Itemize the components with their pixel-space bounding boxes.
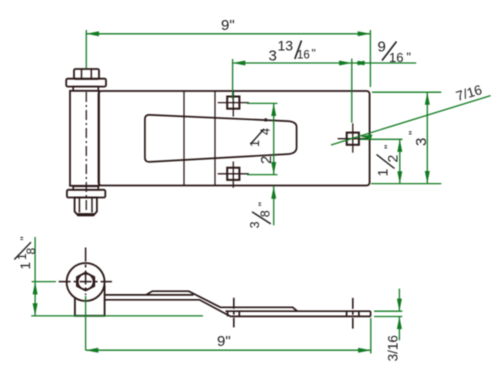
dim 9 inch top: extension lines (85, 30, 87, 69)
svg-text:2: 2 (258, 156, 275, 164)
dim 9/16: arrows (354, 61, 365, 66)
pin centerline (85, 92, 87, 215)
dim 1 1/8: text (rotated) (14, 236, 38, 269)
hole C centerline side view (352, 298, 354, 329)
svg-text:9: 9 (378, 39, 386, 56)
dim 1 1/8: line (34, 237, 36, 316)
knuckle circle (67, 263, 105, 301)
dim 3 inch: arrows (425, 92, 430, 105)
green base surface extension (31, 315, 203, 317)
dim 9 inch bottom: extension line right (370, 318, 372, 354)
dim 9 inch bottom: arrows (86, 348, 99, 353)
dim 3/8: text (rotated) (248, 202, 273, 228)
svg-text:1: 1 (248, 140, 262, 147)
dim 9 inch top: line (86, 33, 370, 35)
hole C edges in side view (346, 311, 348, 316)
leader 7/16: text (rotated) (454, 82, 483, 104)
svg-text:16: 16 (389, 50, 403, 65)
bend line right (214, 91, 216, 186)
svg-text:": " (262, 118, 276, 122)
svg-text:": " (312, 47, 316, 61)
svg-text:": " (20, 236, 32, 240)
svg-text:4: 4 (259, 128, 273, 135)
dim 9/16: text (378, 39, 411, 66)
hole B (lower) (218, 162, 249, 188)
dim 3 13/16: text (269, 38, 316, 65)
bend line left (183, 91, 185, 186)
dim 3 13/16: extension lines (232, 59, 234, 99)
dim 9 inch top: arrows (86, 31, 99, 36)
top nut (74, 69, 99, 79)
dim 9 inch bottom: line (86, 349, 371, 351)
leader 7/16: line (331, 96, 491, 145)
dim 1 1/8: arrows (33, 282, 38, 295)
dim 2 1/4: line (273, 103, 275, 174)
dim 3/8: line below (273, 186, 275, 225)
dim 3 inch: extension lines (372, 91, 441, 93)
bottom collar (73, 186, 98, 190)
knuckle horizontal centerline (59, 281, 112, 283)
svg-text:1: 1 (375, 169, 391, 177)
bottom nut (75, 198, 97, 216)
top collar (73, 87, 98, 91)
hole B centerline side view (233, 298, 235, 328)
hole C (right) (338, 123, 368, 152)
svg-text:3: 3 (248, 221, 262, 228)
svg-text:3: 3 (413, 138, 430, 146)
plate outline (99, 91, 370, 186)
svg-text:3/16: 3/16 (386, 335, 401, 361)
dim 3/16: extension lines (374, 310, 402, 312)
dim 1/2: extension line (359, 138, 402, 140)
knuckle vertical centerline (85, 248, 87, 296)
svg-text:8: 8 (259, 210, 273, 217)
dim 3 inch: line (426, 92, 428, 183)
dim 3 inch: text (rotated) (407, 131, 431, 146)
svg-text:9": 9" (217, 333, 231, 350)
dim 2 1/4: extension lines (247, 102, 278, 104)
dim 3 13/16: line (233, 62, 417, 64)
svg-text:": " (382, 145, 396, 149)
dim 2 1/4: arrows (271, 103, 276, 116)
hinge barrel (70, 91, 99, 186)
svg-text:8: 8 (24, 248, 38, 255)
dim 3 13/16: arrows (233, 61, 246, 66)
svg-text:13: 13 (278, 38, 294, 54)
top washer (66, 79, 106, 87)
green centerline extension left (32, 281, 56, 283)
bottom washer (67, 190, 105, 198)
svg-text:1: 1 (18, 262, 33, 270)
dim 3/16: text (rotated) (386, 335, 401, 361)
svg-text:3: 3 (269, 48, 277, 65)
strap bottom edge (105, 300, 371, 317)
svg-text:": " (256, 202, 270, 206)
hex nut side (77, 273, 94, 291)
svg-text:2: 2 (385, 155, 401, 163)
knuckle body (75, 285, 105, 316)
strap end cap (370, 311, 372, 316)
hole B edges in side view (227, 311, 229, 316)
dim 1/2: text (rotated) (375, 145, 401, 177)
strap top edge (105, 295, 371, 311)
svg-text:9": 9" (221, 17, 235, 34)
svg-text:": " (407, 51, 411, 65)
dim 3/8: arrow up (271, 186, 276, 199)
green pin centerline extension down (85, 296, 87, 350)
dim 3/16: line + outside arrows (398, 289, 400, 312)
dim 1/2: line (399, 139, 401, 184)
dim 1/2: arrows (397, 139, 402, 152)
dim 2 1/4: text (rotated) (248, 118, 276, 164)
hole A (upper) (218, 91, 249, 117)
svg-text:": " (407, 131, 421, 135)
leader 7/16: arrow (360, 135, 373, 140)
tongue profile (146, 291, 297, 311)
slot cutout (145, 115, 297, 162)
svg-text:16: 16 (297, 50, 310, 62)
svg-text:7/16: 7/16 (454, 82, 483, 104)
